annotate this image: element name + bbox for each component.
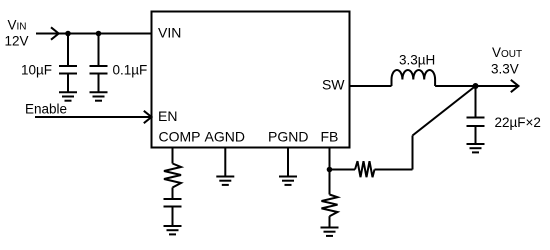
svg-text:0.1µF: 0.1µF — [113, 63, 148, 78]
ground for C2 — [90, 92, 108, 100]
junction node VOUT — [473, 83, 479, 89]
resistor R3 (COMP) — [164, 164, 181, 188]
svg-text:COMP: COMP — [159, 129, 201, 145]
resistor R1 (FB upper) — [355, 161, 375, 177]
svg-text:AGND: AGND — [205, 129, 245, 145]
op-amp U1 (converter IC body) — [152, 12, 350, 148]
svg-text:SW: SW — [322, 77, 345, 93]
wire AGND pin — [224, 148, 226, 177]
svg-text:PGND: PGND — [268, 129, 308, 145]
arrowhead on VIN wire — [51, 27, 59, 39]
arrowhead on Enable wire — [144, 111, 152, 123]
junction node at C2 — [96, 31, 102, 37]
ground for C1 — [59, 92, 77, 100]
wire feedback horizontal to R1 — [375, 169, 413, 171]
wire FB pin — [329, 148, 331, 170]
svg-text:10µF: 10µF — [21, 63, 52, 78]
svg-text:22µF×2: 22µF×2 — [495, 115, 541, 130]
svg-text:VIN: VIN — [158, 25, 181, 41]
wire feedback vertical — [412, 136, 414, 170]
svg-text:12V: 12V — [5, 34, 29, 49]
capacitor C3 22µF×2 — [467, 86, 485, 144]
ground for C3 — [467, 144, 485, 152]
wire R2 to ground — [329, 216, 331, 227]
capacitor C4 (COMP) — [164, 199, 182, 226]
junction node at C1 — [65, 31, 71, 37]
arrowhead on VOUT wire — [511, 80, 519, 92]
wire Enable to EN — [35, 116, 152, 118]
wire COMP pin — [172, 148, 174, 164]
svg-text:Enable: Enable — [25, 102, 67, 117]
junction node FB — [327, 167, 333, 173]
resistor R2 (FB lower) — [322, 195, 338, 217]
wire PGND pin — [287, 148, 289, 177]
inductor L1 3.3µH — [392, 70, 436, 86]
ground for C4 — [164, 226, 182, 234]
wire SW output — [350, 85, 392, 87]
capacitor C1 10µF — [59, 34, 77, 93]
wire feedback diagonal from VOUT node — [413, 86, 476, 136]
ground for R2 — [321, 228, 339, 236]
capacitor C2 0.1µF — [90, 34, 108, 93]
wire R3 to C4 — [172, 188, 174, 200]
svg-text:EN: EN — [158, 108, 177, 124]
wire FB node down — [329, 170, 331, 195]
ground for PGND — [279, 177, 297, 185]
ground for AGND — [216, 177, 234, 185]
svg-text:3.3µH: 3.3µH — [399, 53, 435, 68]
wire VIN input — [36, 33, 152, 35]
wire inductor to VOUT — [435, 85, 517, 87]
svg-text:FB: FB — [321, 129, 339, 145]
svg-text:3.3V: 3.3V — [491, 62, 519, 77]
wire R1 to FB node — [330, 169, 356, 171]
